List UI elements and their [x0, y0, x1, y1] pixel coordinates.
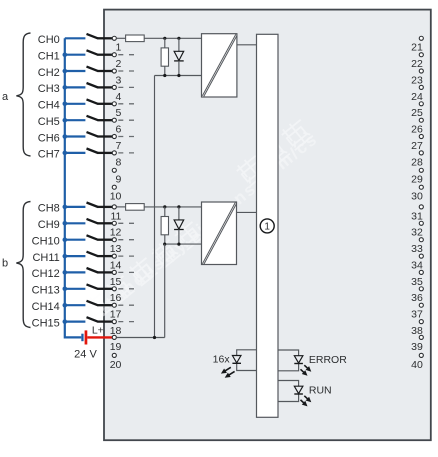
terminal 31 circle [419, 205, 423, 209]
junction on blue bus CH7 [63, 151, 68, 156]
wire CH2 to terminal [98, 70, 113, 72]
group brace b [16, 202, 30, 328]
bottom rail group a [155, 75, 202, 77]
svg-text:19: 19 [110, 341, 122, 353]
channel CH4 tap wire [65, 103, 86, 105]
terminal 14 circle [112, 254, 116, 258]
channel CH0 tap wire [65, 37, 86, 39]
svg-text:CH3: CH3 [38, 83, 60, 95]
svg-text:3: 3 [116, 74, 122, 86]
wire CH8 to terminal [98, 206, 113, 208]
terminal 27 circle [419, 134, 423, 138]
return wire group a to L+ [154, 76, 156, 338]
junction node [177, 205, 180, 208]
dashed wire terminal 15 [118, 271, 134, 273]
channel CH10 tap wire [65, 239, 86, 241]
wire CH14 to terminal [98, 304, 113, 306]
terminal 5 circle [112, 102, 116, 106]
ERROR LED [278, 350, 299, 371]
svg-text:34: 34 [411, 259, 423, 271]
terminal 23 circle [419, 69, 423, 73]
terminal 7 circle [112, 134, 116, 138]
wire CH10 to terminal [98, 239, 113, 241]
channel CH6 tap wire [65, 135, 86, 137]
junction node [177, 243, 180, 246]
svg-text:16x: 16x [213, 354, 231, 366]
switch contact CH9 [87, 219, 99, 224]
channel CH9 tap wire [65, 222, 86, 224]
svg-text:24: 24 [411, 91, 423, 103]
protection diode group a [178, 38, 180, 51]
group brace a [16, 33, 30, 156]
svg-text:CH6: CH6 [38, 132, 60, 144]
wire opto a to bus interface [237, 44, 257, 46]
junction node [163, 243, 166, 246]
marker circle 1 [260, 219, 274, 233]
junction on blue bus CH1 [63, 52, 68, 57]
junction on blue bus CH10 [63, 237, 68, 242]
terminal 38 circle [419, 320, 423, 324]
svg-text:2: 2 [116, 58, 122, 70]
svg-text:17: 17 [110, 309, 122, 321]
svg-text:40: 40 [411, 359, 423, 371]
dashed wire terminal 7 [118, 136, 134, 138]
svg-text:1: 1 [264, 222, 270, 233]
terminal 1 circle [112, 36, 116, 40]
channel CH7 tap wire [65, 152, 86, 154]
dashed wire terminal 8 [118, 152, 134, 154]
terminal 2 circle [112, 53, 116, 57]
terminal 20 circle [112, 353, 116, 357]
bottom rail group b [165, 243, 202, 245]
backplane bus interface U1 [257, 34, 279, 417]
dashed wire terminal 12 [118, 222, 134, 224]
svg-text:b: b [2, 258, 8, 270]
switch contact CH10 [87, 235, 99, 240]
wire CH3 to terminal [98, 86, 113, 88]
junction node [163, 74, 166, 77]
junction on blue bus CH12 [63, 270, 68, 275]
svg-text:24 V: 24 V [74, 348, 97, 360]
svg-text:28: 28 [411, 156, 423, 168]
terminal 21 circle [419, 36, 423, 40]
junction on blue bus CH13 [63, 287, 68, 292]
svg-text:8: 8 [116, 156, 122, 168]
junction on blue bus CH5 [63, 118, 68, 123]
svg-text:39: 39 [411, 341, 423, 353]
terminal 17 circle [112, 303, 116, 307]
switch contact CH7 [87, 149, 99, 154]
svg-text:CH11: CH11 [32, 252, 59, 264]
terminal 3 circle [112, 69, 116, 73]
svg-text:13: 13 [110, 243, 122, 255]
wire opto b to bus interface [237, 211, 257, 213]
dashed wire terminal 18 [118, 321, 134, 323]
svg-text:22: 22 [411, 58, 423, 70]
svg-text:CH10: CH10 [32, 235, 60, 247]
svg-text:35: 35 [411, 276, 423, 288]
battery positive plate [85, 330, 88, 344]
channel CH2 tap wire [65, 70, 86, 72]
channel CH1 tap wire [65, 54, 86, 56]
svg-text:11: 11 [110, 210, 121, 222]
wire CH11 to terminal [98, 255, 113, 257]
svg-text:CH12: CH12 [32, 268, 60, 280]
terminal 10 circle [112, 185, 116, 189]
junction node [163, 205, 166, 208]
wire CH13 to terminal [98, 288, 113, 290]
svg-text:26: 26 [411, 124, 423, 136]
svg-text:6: 6 [116, 124, 122, 136]
svg-text:31: 31 [411, 210, 423, 222]
svg-text:4: 4 [116, 91, 122, 103]
svg-text:CH4: CH4 [38, 100, 60, 112]
internal L+ rail [116, 337, 164, 339]
svg-text:5: 5 [116, 107, 122, 119]
dashed wire terminal 17 [118, 304, 134, 306]
terminal 34 circle [419, 254, 423, 258]
svg-text:37: 37 [411, 309, 423, 321]
terminal 9 circle [112, 168, 116, 172]
svg-text:RUN: RUN [309, 384, 332, 396]
wire CH12 to terminal [98, 271, 113, 273]
wire to optocoupler group a [144, 37, 201, 39]
battery negative plate [81, 334, 83, 342]
channel CH8 tap wire [65, 206, 86, 208]
svg-text:CH8: CH8 [38, 203, 60, 215]
switch contact CH11 [87, 252, 99, 257]
terminal 15 circle [112, 270, 116, 274]
svg-text:L+: L+ [92, 324, 104, 336]
svg-text:1: 1 [116, 42, 122, 54]
input resistor group b [116, 206, 125, 208]
svg-text:25: 25 [411, 107, 423, 119]
junction node L+ rail [153, 336, 156, 339]
wire CH6 to terminal [98, 135, 113, 137]
wire CH15 to terminal [98, 320, 113, 322]
dashed wire terminal 5 [118, 103, 134, 105]
junction on blue bus CH8 [63, 205, 68, 210]
optocoupler group b [202, 202, 237, 265]
module body [104, 10, 431, 441]
terminal 37 circle [419, 303, 423, 307]
switch contact CH2 [87, 67, 99, 72]
input resistor group a [116, 37, 125, 39]
svg-text:32: 32 [411, 227, 423, 239]
svg-text:33: 33 [411, 243, 423, 255]
svg-text:30: 30 [411, 191, 423, 203]
switch contact CH6 [87, 132, 99, 137]
dashed wire terminal 14 [118, 255, 134, 257]
switch contact CH5 [87, 116, 99, 120]
wire to optocoupler group b [144, 206, 201, 208]
terminal 11 circle [112, 205, 116, 209]
wire CH5 to terminal [98, 119, 113, 121]
shunt resistor group b [164, 207, 166, 217]
channel CH12 tap wire [65, 271, 86, 273]
junction on blue bus CH3 [63, 85, 68, 90]
junction on blue bus CH9 [63, 221, 68, 226]
terminal 6 circle [112, 118, 116, 122]
shunt resistor group a [164, 38, 166, 48]
channel CH3 tap wire [65, 86, 86, 88]
svg-text:CH5: CH5 [38, 116, 60, 128]
svg-text:CH2: CH2 [38, 67, 60, 79]
junction node [177, 74, 180, 77]
channel status LEDs 16x [237, 350, 257, 371]
svg-text:16: 16 [110, 292, 122, 304]
channel CH13 tap wire [65, 288, 86, 290]
24V supply blue bus wire [65, 38, 82, 337]
dashed wire terminal 4 [118, 86, 134, 88]
terminal 26 circle [419, 118, 423, 122]
terminal 30 circle [419, 185, 423, 189]
channel CH14 tap wire [65, 304, 86, 306]
svg-text:CH14: CH14 [32, 301, 60, 313]
protection diode group b [178, 207, 180, 220]
svg-text:9: 9 [116, 174, 122, 186]
svg-text:ERROR: ERROR [309, 354, 347, 366]
switch contact CH8 [87, 203, 99, 208]
switch contact CH14 [87, 301, 99, 306]
switch contact CH3 [87, 83, 99, 88]
svg-text:7: 7 [116, 140, 122, 152]
switch contact CH1 [87, 50, 99, 55]
wire CH7 to terminal [98, 152, 113, 154]
terminal 33 circle [419, 238, 423, 242]
svg-text:CH13: CH13 [32, 285, 60, 297]
switch contact CH13 [87, 284, 99, 289]
junction node [163, 37, 166, 40]
terminal 12 circle [112, 221, 116, 225]
optocoupler group a [202, 34, 237, 97]
dashed wire terminal 2 [118, 54, 134, 56]
return wire group b to L+ [164, 244, 166, 337]
svg-text:21: 21 [411, 42, 423, 54]
junction on blue bus CH4 [63, 102, 68, 107]
RUN LED [278, 381, 299, 402]
terminal 22 circle [419, 53, 423, 57]
dashed wire terminal 3 [118, 70, 134, 72]
svg-text:CH0: CH0 [38, 34, 60, 46]
svg-text:27: 27 [411, 140, 423, 152]
junction on blue bus CH14 [63, 303, 68, 308]
switch contact CH15 [87, 317, 99, 322]
channel CH15 tap wire [65, 321, 86, 323]
junction node [177, 37, 180, 40]
junction on blue bus CH11 [63, 254, 68, 259]
wire CH1 to terminal [98, 54, 113, 56]
terminal 19 circle [112, 335, 116, 339]
junction on blue bus CH15 [63, 319, 68, 324]
junction on blue bus CH2 [63, 69, 68, 74]
svg-text:14: 14 [110, 259, 122, 271]
terminal 25 circle [419, 102, 423, 106]
wire L+ red supply [87, 336, 112, 338]
svg-text:23: 23 [411, 74, 423, 86]
terminal 8 circle [112, 151, 116, 155]
channel CH5 tap wire [65, 119, 86, 121]
svg-text:CH7: CH7 [38, 149, 60, 161]
svg-text:a: a [2, 91, 9, 103]
svg-text:12: 12 [110, 227, 122, 239]
switch contact CH12 [87, 268, 99, 273]
svg-text:10: 10 [110, 191, 122, 203]
terminal 39 circle [419, 335, 423, 339]
svg-text:36: 36 [411, 292, 423, 304]
terminal 24 circle [419, 85, 423, 89]
terminal 4 circle [112, 85, 116, 89]
terminal 35 circle [419, 270, 423, 274]
terminal 29 circle [419, 168, 423, 172]
svg-text:29: 29 [411, 174, 423, 186]
channel CH11 tap wire [65, 255, 86, 257]
svg-text:20: 20 [110, 359, 122, 371]
terminal 40 circle [419, 353, 423, 357]
wire CH9 to terminal [98, 222, 113, 224]
terminal 18 circle [112, 320, 116, 324]
wire CH0 to terminal [98, 37, 113, 39]
terminal 13 circle [112, 238, 116, 242]
svg-text:CH9: CH9 [38, 219, 60, 231]
svg-text:CH15: CH15 [32, 317, 60, 329]
terminal 36 circle [419, 287, 423, 291]
junction on blue bus CH6 [63, 134, 68, 139]
svg-text:CH1: CH1 [38, 50, 60, 62]
switch contact CH0 [87, 34, 99, 39]
terminal 28 circle [419, 151, 423, 155]
terminal 32 circle [419, 221, 423, 225]
dashed wire terminal 16 [118, 288, 134, 290]
svg-text:15: 15 [110, 276, 122, 288]
wire CH4 to terminal [98, 103, 113, 105]
dashed wire terminal 6 [118, 119, 134, 121]
dashed wire terminal 13 [118, 239, 134, 241]
switch contact CH4 [87, 99, 99, 104]
terminal 16 circle [112, 287, 116, 291]
